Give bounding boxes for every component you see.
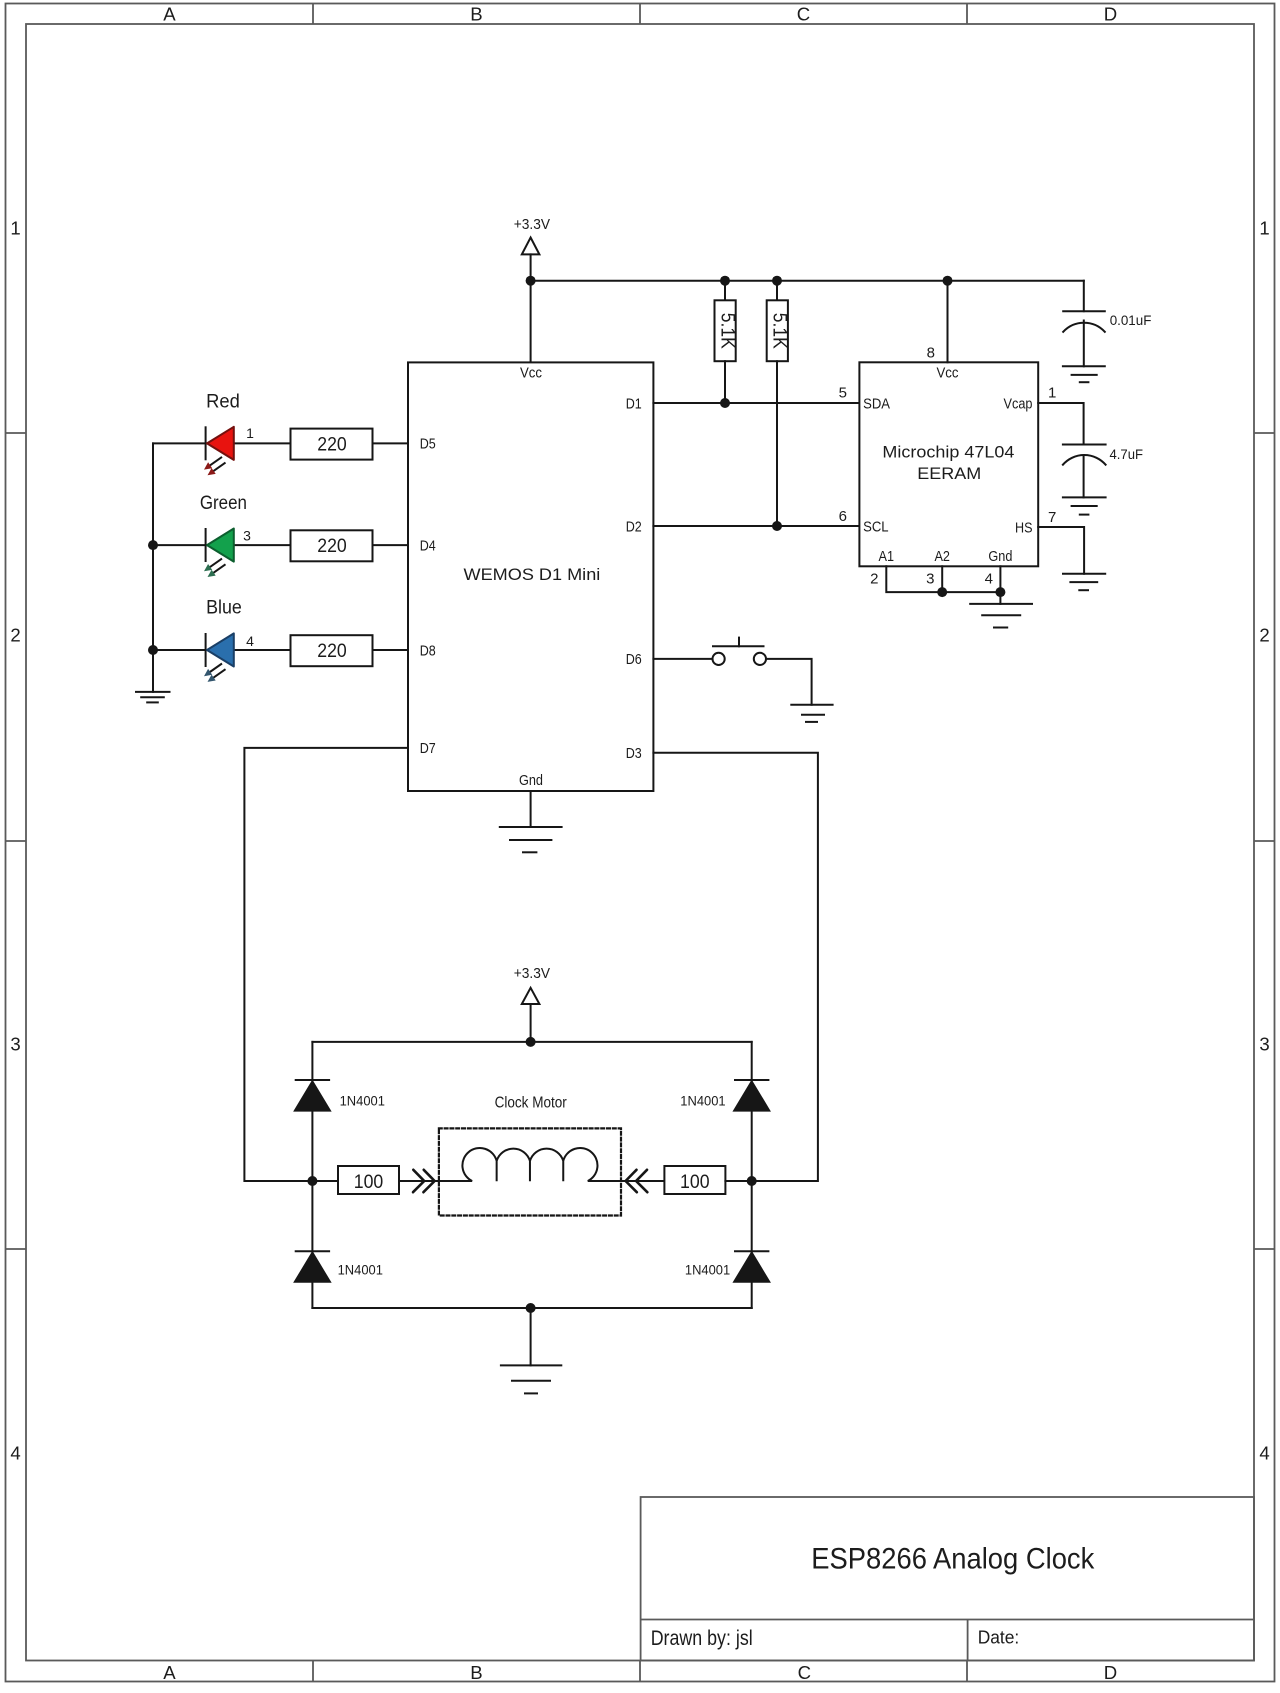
svg-text:3: 3 bbox=[10, 1034, 20, 1055]
svg-text:D2: D2 bbox=[626, 518, 642, 535]
svg-text:SDA: SDA bbox=[863, 395, 890, 412]
wire D3 to bridge right bbox=[653, 753, 818, 1181]
svg-text:220: 220 bbox=[317, 434, 347, 455]
svg-text:D6: D6 bbox=[626, 651, 642, 668]
wire bridge right vertical bbox=[751, 1042, 753, 1308]
svg-text:D5: D5 bbox=[420, 436, 436, 453]
svg-text:Gnd: Gnd bbox=[988, 548, 1012, 565]
resistor R6 100 bbox=[338, 1166, 399, 1194]
inductor L1 clock motor coil bbox=[439, 1148, 621, 1181]
svg-text:1N4001: 1N4001 bbox=[340, 1094, 385, 1109]
node bus-blue bbox=[148, 645, 158, 655]
resistor R2 5.1K pull-up bbox=[767, 281, 788, 526]
node SDA-R1 bbox=[720, 398, 730, 408]
svg-text:D3: D3 bbox=[626, 745, 642, 762]
svg-text:4: 4 bbox=[10, 1443, 20, 1464]
svg-text:Clock Motor: Clock Motor bbox=[495, 1094, 567, 1111]
svg-text:Vcc: Vcc bbox=[520, 365, 542, 382]
ground for C1 bbox=[1063, 366, 1105, 382]
wire green LED row bbox=[153, 544, 206, 546]
svg-text:ESP8266 Analog Clock: ESP8266 Analog Clock bbox=[811, 1543, 1095, 1576]
wire EERAM Vcc pin 8 bbox=[947, 281, 949, 363]
resistor R7 100 bbox=[664, 1166, 725, 1194]
LED D_blue bbox=[204, 633, 234, 682]
svg-text:1: 1 bbox=[246, 425, 254, 441]
svg-text:A1: A1 bbox=[879, 548, 895, 565]
chevrons right bbox=[626, 1170, 648, 1192]
wire bottom rail to ground bbox=[530, 1308, 532, 1365]
diode D1N4001 lower-right bbox=[734, 1251, 769, 1282]
svg-text:5.1K: 5.1K bbox=[768, 313, 790, 349]
wire bridge left vertical bbox=[311, 1042, 313, 1308]
svg-text:+3.3V: +3.3V bbox=[514, 216, 550, 233]
capacitor C2 4.7uF bbox=[1063, 445, 1106, 498]
svg-text:100: 100 bbox=[680, 1172, 710, 1193]
WEMOS D1 Mini U1 bbox=[408, 362, 653, 791]
svg-text:1: 1 bbox=[1259, 218, 1269, 239]
wire D6 to button bbox=[653, 658, 712, 660]
wire D1 to SDA bbox=[653, 402, 859, 404]
node rail-vcc bbox=[526, 276, 536, 286]
svg-text:+3.3V: +3.3V bbox=[514, 965, 550, 982]
row numbers right bbox=[1259, 218, 1269, 1464]
svg-text:1N4001: 1N4001 bbox=[680, 1094, 725, 1109]
node bridge-gnd bbox=[526, 1303, 536, 1313]
svg-text:A: A bbox=[163, 1662, 176, 1683]
pushbutton SW1 bbox=[713, 638, 767, 665]
svg-text:8: 8 bbox=[927, 345, 935, 362]
wire blue LED row bbox=[153, 649, 206, 651]
resistor R1 5.1K pull-up bbox=[715, 281, 736, 403]
svg-text:4: 4 bbox=[246, 633, 254, 649]
svg-text:B: B bbox=[470, 1662, 482, 1683]
svg-text:SCL: SCL bbox=[863, 518, 889, 535]
svg-text:HS: HS bbox=[1015, 519, 1033, 536]
svg-text:WEMOS D1 Mini: WEMOS D1 Mini bbox=[464, 566, 601, 584]
svg-text:Red: Red bbox=[206, 392, 240, 413]
wire WEMOS Gnd bbox=[530, 791, 532, 827]
ground for LED bus bbox=[136, 692, 170, 703]
svg-text:3: 3 bbox=[926, 571, 934, 588]
wire left node to R6 bbox=[312, 1180, 338, 1182]
node SCL-R2 bbox=[772, 521, 782, 531]
wire D7 to bridge left bbox=[244, 748, 408, 1181]
svg-text:3: 3 bbox=[243, 528, 251, 544]
resistor R4 220 bbox=[291, 530, 373, 561]
node bus-green bbox=[148, 540, 158, 550]
wire +3.3V rail bbox=[531, 280, 1084, 282]
wire Vcc drop to WEMOS bbox=[530, 281, 532, 363]
diode D1N4001 upper-right bbox=[734, 1080, 769, 1111]
svg-text:2: 2 bbox=[10, 625, 20, 646]
wire HS pin 7 bbox=[1038, 527, 1084, 574]
svg-text:0.01uF: 0.01uF bbox=[1110, 312, 1152, 328]
wire R7 to right node bbox=[725, 1180, 751, 1182]
EERAM U2 Microchip 47L04 bbox=[859, 362, 1038, 566]
svg-text:7: 7 bbox=[1048, 509, 1056, 526]
node rail-eeram bbox=[943, 276, 953, 286]
resistor R5 220 bbox=[291, 635, 373, 666]
wire EERAM Gnd pin 4 bbox=[999, 566, 1001, 592]
svg-text:Green: Green bbox=[200, 493, 247, 514]
ground for button bbox=[791, 705, 832, 722]
row numbers left bbox=[10, 218, 20, 1464]
diode D1N4001 lower-left bbox=[295, 1251, 330, 1282]
wire EERAM A2 pin 3 bbox=[941, 566, 943, 592]
LED D_green bbox=[204, 528, 234, 577]
svg-text:Microchip 47L04: Microchip 47L04 bbox=[882, 444, 1014, 462]
svg-text:A2: A2 bbox=[934, 548, 950, 565]
wire motor to R7 bbox=[621, 1180, 664, 1182]
LED bus wire left bbox=[152, 443, 154, 692]
capacitor C1 0.01uF bbox=[1063, 311, 1105, 366]
svg-text:1: 1 bbox=[1048, 385, 1056, 402]
column letters top bbox=[163, 4, 1117, 25]
wire R6 to motor bbox=[399, 1180, 439, 1182]
ground for C2 bbox=[1063, 497, 1106, 514]
svg-text:100: 100 bbox=[354, 1172, 384, 1193]
svg-text:Gnd: Gnd bbox=[519, 772, 543, 789]
ground for WEMOS bbox=[500, 827, 562, 852]
ground for HS bbox=[1063, 574, 1105, 591]
node bridge-right bbox=[747, 1176, 757, 1186]
svg-text:1: 1 bbox=[10, 218, 20, 239]
svg-text:B: B bbox=[470, 4, 482, 25]
svg-text:C: C bbox=[797, 4, 810, 25]
column letters bottom bbox=[163, 1662, 1117, 1683]
svg-text:D: D bbox=[1104, 1662, 1117, 1683]
svg-text:A: A bbox=[163, 4, 176, 25]
node rail-R1 bbox=[720, 276, 730, 286]
chevrons left bbox=[413, 1170, 435, 1192]
diode D1N4001 upper-left bbox=[295, 1080, 330, 1111]
svg-text:Drawn by: jsl: Drawn by: jsl bbox=[651, 1626, 753, 1650]
svg-text:Vcap: Vcap bbox=[1004, 395, 1033, 412]
svg-text:3: 3 bbox=[1259, 1034, 1269, 1055]
svg-text:EERAM: EERAM bbox=[917, 465, 981, 483]
wire D2 to SCL bbox=[653, 525, 859, 527]
svg-text:D8: D8 bbox=[420, 642, 436, 659]
svg-text:D7: D7 bbox=[420, 740, 436, 757]
wire EERAM A1 pin 2 bbox=[886, 566, 1000, 592]
power +3.3V top symbol bbox=[522, 238, 540, 281]
wire rail to 0.01uF bbox=[1083, 281, 1085, 312]
node Gnd4 bbox=[995, 587, 1005, 597]
svg-text:2: 2 bbox=[870, 571, 878, 588]
svg-text:C: C bbox=[798, 1662, 811, 1683]
svg-text:D1: D1 bbox=[626, 395, 642, 412]
svg-text:220: 220 bbox=[317, 536, 347, 557]
ground for motor bridge bbox=[501, 1365, 561, 1393]
svg-text:4.7uF: 4.7uF bbox=[1110, 446, 1144, 462]
wire button to ground bbox=[766, 659, 812, 705]
svg-text:4: 4 bbox=[985, 571, 993, 588]
power +3.3V motor symbol bbox=[522, 988, 540, 1042]
node bridge-left bbox=[307, 1176, 317, 1186]
svg-text:D: D bbox=[1104, 4, 1117, 25]
svg-text:Blue: Blue bbox=[206, 598, 242, 619]
node rail-R2 bbox=[772, 276, 782, 286]
wire red LED row bbox=[153, 442, 206, 444]
svg-text:6: 6 bbox=[839, 508, 847, 525]
ground for EERAM bbox=[970, 592, 1032, 627]
node A2 bbox=[937, 587, 947, 597]
LED D_red bbox=[204, 426, 234, 475]
svg-text:Vcc: Vcc bbox=[937, 364, 959, 381]
svg-text:2: 2 bbox=[1259, 625, 1269, 646]
svg-text:D4: D4 bbox=[420, 537, 436, 554]
svg-text:Date:: Date: bbox=[978, 1627, 1020, 1648]
wire bridge bottom rail bbox=[312, 1307, 751, 1309]
svg-text:4: 4 bbox=[1259, 1443, 1269, 1464]
clock motor dashed box bbox=[439, 1128, 621, 1215]
node motor-33v bbox=[526, 1037, 536, 1047]
svg-text:5.1K: 5.1K bbox=[716, 313, 738, 349]
svg-text:1N4001: 1N4001 bbox=[685, 1263, 730, 1278]
wire bridge top rail bbox=[312, 1041, 751, 1043]
wire Vcap pin 1 bbox=[1038, 403, 1083, 445]
svg-text:5: 5 bbox=[839, 385, 847, 402]
svg-text:220: 220 bbox=[317, 641, 347, 662]
resistor R3 220 bbox=[291, 429, 373, 460]
title block bbox=[641, 1497, 1254, 1661]
svg-text:1N4001: 1N4001 bbox=[338, 1263, 383, 1278]
